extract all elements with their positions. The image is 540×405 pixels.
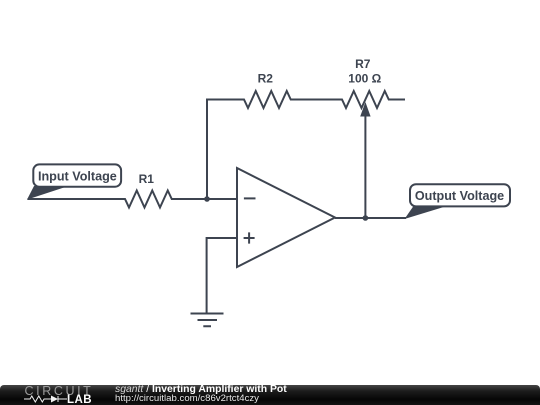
svg-text:Output Voltage: Output Voltage: [415, 189, 504, 203]
svg-text:R2: R2: [258, 72, 274, 86]
svg-text:R7: R7: [355, 57, 371, 71]
svg-text:LAB: LAB: [67, 394, 92, 405]
svg-text:R1: R1: [139, 172, 155, 186]
svg-text:100 Ω: 100 Ω: [348, 72, 381, 86]
svg-text:Input Voltage: Input Voltage: [38, 169, 117, 183]
